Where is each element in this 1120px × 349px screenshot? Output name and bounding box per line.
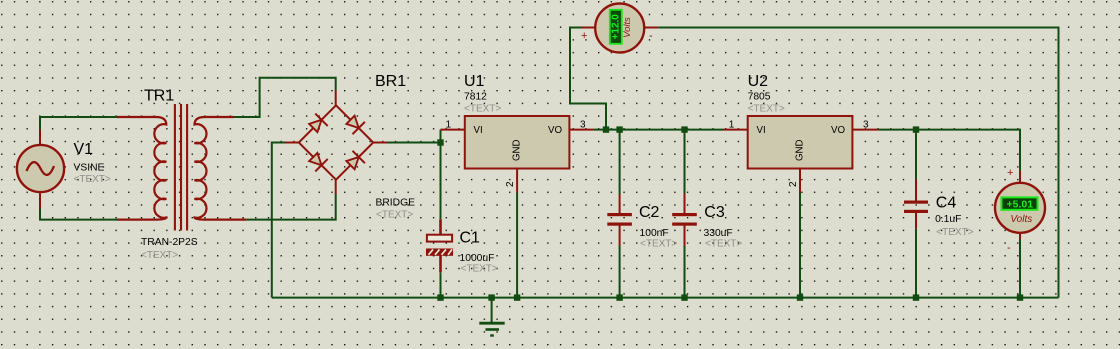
capacitor C3 bbox=[672, 194, 697, 247]
junction rail U2 pin2 bbox=[797, 294, 803, 300]
svg-text:7812: 7812 bbox=[464, 92, 487, 103]
wire: U1 VO to U2 VI (12V net) bbox=[593, 129, 723, 131]
svg-text:Volts: Volts bbox=[622, 17, 633, 38]
svg-text:GND: GND bbox=[512, 139, 523, 161]
svg-text:C2: C2 bbox=[639, 204, 660, 221]
junction rail C4 bbox=[913, 294, 919, 300]
svg-text:2: 2 bbox=[505, 181, 516, 187]
junction C2 top bbox=[616, 126, 622, 132]
svg-text:<TEXT>: <TEXT> bbox=[376, 209, 413, 220]
wire: V1 bottom to TR1 primary bottom bbox=[40, 208, 118, 220]
svg-text:<TEXT>: <TEXT> bbox=[461, 264, 498, 275]
svg-text:C4: C4 bbox=[936, 194, 957, 211]
svg-text:VI: VI bbox=[474, 125, 483, 136]
wire: bottom ground rail bbox=[272, 297, 1059, 299]
svg-text:1000uF: 1000uF bbox=[460, 253, 495, 264]
svg-text:VSINE: VSINE bbox=[74, 163, 105, 174]
svg-text:-: - bbox=[649, 30, 653, 42]
svg-text:Volts: Volts bbox=[1010, 214, 1032, 225]
junction C3 top bbox=[681, 126, 687, 132]
svg-text:VO: VO bbox=[548, 125, 562, 136]
svg-text:+5.01: +5.01 bbox=[1007, 199, 1034, 211]
svg-text:7805: 7805 bbox=[748, 92, 771, 103]
junction rail C1 bbox=[437, 294, 443, 300]
wire: C3 branch bottom bbox=[684, 246, 686, 298]
svg-text:<TEXT>: <TEXT> bbox=[640, 238, 677, 249]
svg-text:0.1uF: 0.1uF bbox=[935, 214, 961, 225]
svg-text:<TEXT>: <TEXT> bbox=[464, 104, 501, 115]
svg-text:2: 2 bbox=[788, 181, 799, 187]
svg-text:BRIDGE: BRIDGE bbox=[376, 198, 416, 209]
wire: voltmeter1 minus to right rail bbox=[658, 28, 1058, 298]
wire: voltmeter2 minus to rail bbox=[1019, 239, 1021, 298]
svg-text:C1: C1 bbox=[460, 230, 481, 247]
junction C4 top bbox=[913, 126, 919, 132]
svg-text:3: 3 bbox=[863, 120, 869, 131]
svg-text:BR1: BR1 bbox=[375, 73, 406, 90]
regulator U1 7812 bbox=[441, 116, 594, 193]
voltmeter VM2 (+5.01) bbox=[995, 171, 1045, 240]
svg-text:<TEXT>: <TEXT> bbox=[705, 238, 742, 249]
svg-text:1: 1 bbox=[729, 120, 735, 131]
junction rail voltmeter2 bbox=[1017, 294, 1023, 300]
wire: C3 branch top bbox=[684, 130, 686, 194]
ground bbox=[479, 298, 504, 336]
wire: bridge right vertex to node A bbox=[388, 142, 441, 144]
svg-text:GND: GND bbox=[795, 139, 806, 161]
junction rail ground bbox=[488, 294, 494, 300]
wire: C1 bottom to rail bbox=[440, 272, 442, 297]
svg-text:VO: VO bbox=[831, 125, 845, 136]
junction rail C2 bbox=[616, 294, 622, 300]
capacitor C1 (electrolytic) bbox=[426, 219, 453, 272]
capacitor C4 bbox=[904, 179, 928, 228]
junction rail C3 bbox=[681, 294, 687, 300]
transformer TR1 bbox=[117, 104, 246, 231]
wire: C4 branch bottom bbox=[915, 229, 917, 298]
wire: U1 GND pin 2 to rail bbox=[516, 193, 518, 298]
svg-text:3: 3 bbox=[580, 120, 586, 131]
bridge BR1 bbox=[286, 91, 388, 195]
svg-text:U2: U2 bbox=[748, 73, 769, 90]
wire: C4 branch top bbox=[915, 130, 917, 180]
svg-text:V1: V1 bbox=[74, 141, 94, 158]
svg-text:TRAN-2P2S: TRAN-2P2S bbox=[141, 237, 198, 248]
svg-text:-: - bbox=[1007, 242, 1011, 254]
svg-text:1: 1 bbox=[446, 120, 452, 131]
svg-text:<TEXT>: <TEXT> bbox=[74, 174, 111, 185]
diode D1 top-left bbox=[307, 114, 328, 135]
svg-text:+: + bbox=[1007, 167, 1013, 179]
svg-text:VI: VI bbox=[757, 125, 766, 136]
wire: node A up to U1 VI bbox=[440, 130, 442, 143]
junction rail U1 pin2 bbox=[514, 294, 520, 300]
wire: C2 branch bottom bbox=[619, 246, 621, 298]
wire: U2 GND pin 2 to rail bbox=[799, 193, 801, 298]
wire: TR1 secondary bottom to bridge bottom bbox=[246, 194, 335, 220]
svg-text:<TEXT>: <TEXT> bbox=[141, 250, 178, 261]
svg-text:C3: C3 bbox=[704, 204, 725, 221]
wire: U2 VO to voltmeter2 plus (5V net) bbox=[878, 130, 1020, 171]
svg-text:TR1: TR1 bbox=[144, 88, 174, 105]
svg-text:<TEXT>: <TEXT> bbox=[748, 104, 785, 115]
diode D3 bottom-left bbox=[307, 151, 328, 172]
svg-text:U1: U1 bbox=[464, 73, 485, 90]
wire: node A down to C1 bbox=[440, 143, 442, 220]
wire: bridge left vertex to ground rail bbox=[272, 143, 286, 298]
voltmeter VM1 (+12.0) bbox=[582, 4, 658, 53]
wire: TR1 secondary top to bridge top bbox=[234, 78, 336, 117]
junction node B (voltmeter1 tap) bbox=[603, 126, 609, 132]
regulator U2 7805 bbox=[723, 116, 878, 193]
diode D2 top-right bbox=[344, 114, 365, 135]
diode D4 bottom-right bbox=[344, 151, 365, 172]
svg-text:+12.0: +12.0 bbox=[610, 14, 621, 40]
capacitor C2 bbox=[607, 194, 632, 246]
wire: C2 branch top bbox=[619, 130, 621, 194]
junction node A bbox=[437, 139, 443, 145]
svg-text:<TEXT>: <TEXT> bbox=[936, 227, 973, 238]
wire: node B up to voltmeter1 plus bbox=[570, 28, 606, 130]
source V1 bbox=[17, 130, 64, 209]
svg-text:+: + bbox=[581, 30, 587, 42]
wire: V1 top to TR1 primary top bbox=[40, 117, 117, 130]
